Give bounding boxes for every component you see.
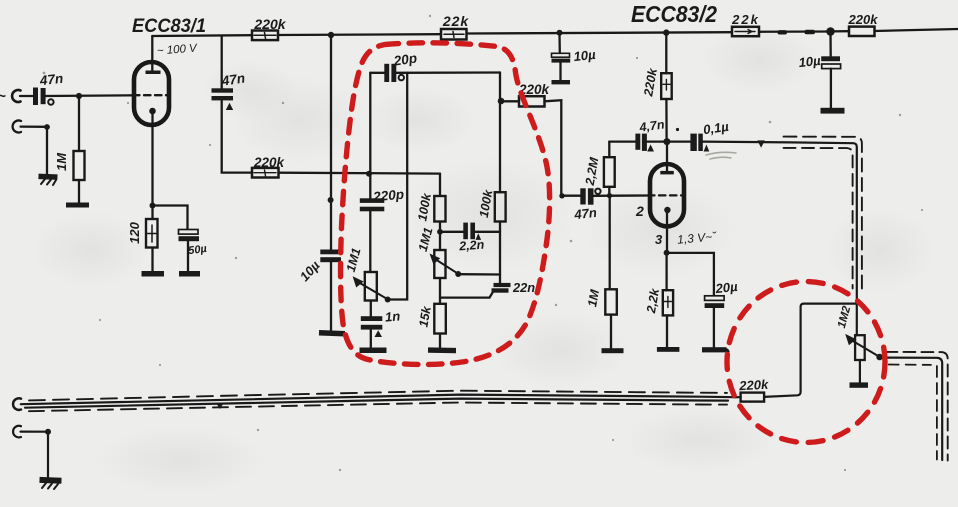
pin label 3 [655, 232, 663, 247]
wire R14 to ground [666, 315, 668, 347]
V2 cathode lead [666, 213, 668, 251]
svg-text:1n: 1n [384, 308, 400, 324]
svg-text:3: 3 [655, 232, 663, 247]
resistor R1 1M (grid leak) [74, 151, 85, 180]
node E junction (big) [826, 27, 835, 36]
triode V2 ECC83/2 envelope [650, 164, 684, 226]
resistor R5 22k (rail right) [732, 27, 759, 36]
wire tone input down to R8 [439, 174, 441, 196]
node H junction (220k tap) [498, 98, 505, 105]
wire C8 to x500 column [475, 231, 500, 233]
svg-text:~: ~ [0, 88, 6, 105]
wire J4 to ground [21, 432, 49, 478]
shield (top/right outer) dashed [784, 137, 862, 291]
svg-text:47n: 47n [573, 205, 598, 222]
bottom cable shield bottom dashed [29, 403, 727, 412]
ground (J4, hatched) [39, 477, 61, 484]
ground (R1) [66, 203, 89, 208]
svg-text:20µ: 20µ [714, 279, 739, 296]
wire C4 to ground [330, 262, 332, 330]
wire 20p-left vertical down to C6 [369, 73, 371, 199]
wire P1 bottom to C7 [370, 301, 372, 317]
resistor R7 220k (to tone stack) [252, 168, 279, 178]
C7 polarity triangle [375, 330, 383, 337]
P3 wiper arrow [851, 340, 880, 357]
resistor R14 2,2k (cathode V2) [665, 253, 667, 290]
node AC input tilde [0, 88, 6, 105]
capacitor C6 220p [360, 198, 385, 211]
red dashed loop (tone stack highlight) [341, 43, 550, 365]
wire P1 wiper up to C5 right [388, 73, 408, 300]
wire K1 to C2 [153, 206, 188, 230]
blob on wire [328, 197, 334, 203]
bottom cable conductor A [21, 395, 736, 405]
label 1,3V~ (faint) [677, 229, 718, 246]
node L junction (grid) [607, 193, 612, 198]
svg-text:22k: 22k [442, 13, 470, 29]
ground (C11) [552, 80, 571, 84]
ground (C4) [319, 330, 345, 336]
wire node J left to C12 [647, 140, 663, 142]
svg-text:220k: 220k [253, 155, 286, 170]
wire P3 bottom to ground [859, 360, 861, 382]
capacitor C12 4,7n [635, 134, 647, 151]
ground (R2) [142, 271, 165, 277]
output cable shield inner dashes [889, 364, 931, 366]
wire node E to R6 [831, 30, 850, 32]
wire R12 to node J [665, 99, 667, 138]
capacitor C10 47n (grid V2) [580, 188, 593, 204]
node I junction [559, 193, 564, 198]
wire jack2 to ground [21, 127, 48, 174]
wire rail R3 to R4 [278, 33, 441, 36]
wire R11 right and down [545, 100, 562, 195]
node J junction (plate/caps) [663, 138, 670, 145]
label ECC83/1 [132, 15, 206, 37]
capacitor C11 10u [552, 53, 570, 57]
wire R9 to ground [439, 334, 441, 348]
wire node I to C10 [561, 195, 580, 197]
resistor R10 100k (right) [495, 192, 506, 221]
resistor R16 220k (mix) [741, 393, 765, 402]
ground (R14) [657, 347, 680, 352]
wire cable to R16 [734, 396, 741, 398]
V1 grid dashed line [133, 94, 170, 96]
ground (J2, hatched) [38, 174, 57, 180]
terminal mark o on C5 [399, 75, 404, 80]
node K1 junction [150, 203, 156, 209]
wire R7 to tone stack [279, 172, 441, 175]
wire R13 to grid wire [608, 187, 610, 196]
V1 anode bar [146, 71, 161, 75]
V2 anode bar [660, 171, 674, 175]
resistor R11 220k (tone output) [501, 100, 519, 102]
svg-text:ECC83/1: ECC83/1 [132, 15, 206, 37]
capacitor C5 20p [384, 64, 396, 82]
jack J4 (aux input sleeve) [13, 426, 21, 438]
wire 22n bottom tap [440, 293, 493, 298]
wire R1 to ground [78, 180, 80, 203]
svg-text:2: 2 [635, 203, 644, 219]
capacitor C8 2,2n [463, 223, 475, 240]
wire node A down to R1 [78, 96, 80, 151]
potentiometer P3 1M2 [855, 335, 865, 360]
node B junction (rail/10u feed) [328, 32, 334, 38]
triode V1 ECC83/1 envelope [134, 62, 169, 125]
capacitor C13 0,1u [690, 134, 702, 151]
ground (C15) [821, 108, 845, 114]
wire C3 down and to R7 [222, 100, 252, 172]
jack J2 (input sleeve) [13, 121, 21, 133]
capacitor C14 20u [705, 296, 725, 301]
ground (C14) [702, 347, 727, 352]
C12 polarity triangle [647, 144, 654, 151]
resistor R3 220k (plate load V1) [252, 31, 278, 41]
node N junction [45, 429, 51, 435]
svg-text:220k: 220k [848, 12, 879, 27]
potentiometer P2 1M1 (mid) [434, 250, 445, 278]
V1 cathode dot [149, 108, 156, 115]
C13 polarity triangle [704, 145, 710, 152]
capacitor C2 50u (cathode bypass) [179, 230, 199, 235]
bottom cable conductor B [25, 399, 728, 408]
node C junction (10u2) [557, 30, 563, 36]
node G junction [437, 229, 443, 235]
node K2 junction [664, 250, 670, 256]
svg-text:2,2n: 2,2n [458, 238, 485, 254]
resistor R6 220k (B+ feed) [849, 27, 875, 36]
gray smudge marks [706, 152, 736, 159]
ground (P3) [850, 382, 869, 387]
capacitor C3 47n (coupling V1) [221, 36, 223, 88]
svg-text:120: 120 [127, 221, 142, 243]
ground (C2) [179, 271, 200, 277]
wire C1 to grid V1 [46, 94, 134, 97]
wire mix node up from 220k [764, 304, 857, 397]
red dashed circle (mix highlight) [727, 282, 885, 443]
V2 cathode dot [664, 207, 670, 213]
output cable shield top dashed [885, 352, 947, 461]
node F junction [366, 171, 372, 177]
C3 polarity triangle [226, 103, 233, 110]
svg-text:220k: 220k [253, 16, 286, 32]
capacitor C9 22n [492, 283, 511, 293]
wire node E down to C15 [829, 32, 832, 57]
ground (R15) [602, 348, 624, 353]
node M junction (wiper) [876, 354, 883, 361]
svg-text:22k: 22k [731, 12, 760, 27]
svg-text:220p: 220p [372, 187, 405, 205]
wire P2 wiper to x500 column [458, 273, 500, 276]
node A junction [76, 93, 82, 99]
wire node J right to C13 [671, 140, 691, 142]
wire C2 to ground [187, 241, 189, 271]
resistor R4 22k (rail) [441, 29, 467, 40]
V1 anode lead to rail [151, 36, 153, 71]
svg-text:10µ: 10µ [798, 53, 822, 70]
V1 cathode lead [151, 114, 153, 204]
wire C15 to ground [830, 69, 832, 108]
wire node D down to R12 [665, 33, 667, 73]
wire C12 left end [609, 140, 635, 142]
capacitor C1 47n (input) [33, 88, 46, 106]
tiny mark above wire [676, 128, 679, 131]
capacitor C15 10u (B+ filter) [821, 56, 840, 61]
capacitor C7 1n [361, 316, 383, 329]
resistor R12 220k (plate load V2) [661, 73, 672, 99]
resistor R8 100k (left) [434, 196, 445, 222]
wire K2 to C14 [667, 253, 714, 296]
wire C6 to P1 [369, 211, 371, 272]
svg-text:22n: 22n [512, 280, 535, 295]
arrow mark on cable [216, 403, 223, 409]
terminal mark o on C1 [48, 99, 53, 104]
wire node C down to C11 [558, 33, 561, 53]
arrow mark on conductor [757, 140, 765, 147]
svg-text:220k: 220k [738, 377, 769, 394]
svg-text:10µ: 10µ [573, 47, 597, 64]
node D junction (220k vert) [663, 29, 669, 35]
wire node G to C8 [440, 231, 463, 233]
wire node B down (10u branch) [330, 35, 332, 250]
capacitor C4 10u (decoupling) [320, 250, 341, 263]
wire C10 to V2 grid [594, 194, 651, 197]
jack J3 (aux input tip) [13, 398, 21, 410]
wire C14 to ground [713, 308, 715, 347]
P1 wiper arrow [359, 282, 388, 299]
P2 wiper arrow [435, 259, 458, 274]
svg-text:1M: 1M [54, 152, 69, 171]
jack J1 (input tip) [12, 90, 20, 102]
wire rail dash blobs [778, 30, 788, 34]
wire C5 left [370, 72, 384, 74]
V2 anode lead [666, 142, 668, 171]
node P1 wiper junction [385, 297, 391, 303]
pin label 2 [635, 203, 644, 219]
wire x500 column top [499, 73, 501, 193]
wire B+ rail V1 plate to R3 [152, 34, 252, 37]
resistor R2 120 (cathode) [151, 207, 153, 219]
wire R15 to ground [610, 315, 612, 349]
label ~100V (faint) [156, 43, 198, 58]
wire R8 to P2 [439, 222, 441, 251]
wire C13 output conductor (shielded run) [703, 142, 857, 336]
ground (R9) [428, 347, 456, 353]
svg-text:47n: 47n [38, 71, 64, 88]
wire C11 to ground [559, 63, 561, 80]
terminal mark o on C10 [595, 189, 600, 194]
wire P2 bottom to R9 [439, 278, 441, 304]
svg-text:ECC83/2: ECC83/2 [631, 1, 717, 27]
wire R6 to right edge [875, 29, 958, 31]
wire R2 to ground [151, 248, 153, 272]
bottom cable shield top dashed [29, 391, 727, 401]
node P2 wiper junction [455, 271, 461, 277]
ground (C7) [360, 348, 387, 354]
resistor R9 15k [434, 304, 446, 334]
resistor R15 1M (grid leak V2) [609, 196, 611, 290]
shield (bottom/left inner) dashed [784, 148, 853, 289]
wire rail R4 to 22k2 [467, 32, 733, 33]
resistor R13 2,2M [608, 142, 610, 158]
wire jack1 to C1 [20, 95, 33, 97]
potentiometer P1 1M1 (bass) [365, 272, 377, 301]
wire R10 down to 22n top [499, 222, 501, 284]
output cable conductor from wiper [883, 358, 942, 460]
V2 grid dashed line [648, 194, 685, 196]
junction J2 wire [44, 124, 50, 130]
wire C7 to ground [370, 330, 372, 348]
wire C5 right to x500 column [396, 71, 500, 74]
label ECC83/2 [631, 1, 717, 27]
